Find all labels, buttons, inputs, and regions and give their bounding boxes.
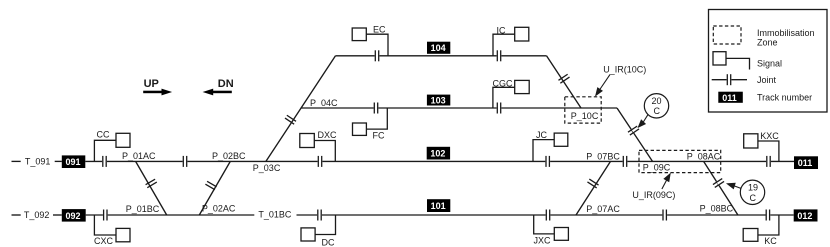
svg-text:FC: FC: [373, 131, 385, 141]
joint on P_01 diagonal: [145, 179, 157, 189]
signal DXC: [300, 134, 336, 162]
joint on main line at DXC: [318, 156, 323, 167]
svg-text:EC: EC: [373, 25, 386, 35]
signal CGC: [493, 80, 529, 108]
signal JC: [533, 133, 568, 161]
track number box 011: [794, 156, 818, 169]
svg-text:P_01AC: P_01AC: [122, 151, 156, 161]
immobilisation zone P_09C: [639, 150, 721, 172]
signal KXC: [744, 134, 779, 162]
svg-text:C: C: [654, 106, 661, 116]
svg-text:012: 012: [797, 211, 812, 221]
svg-text:Joint: Joint: [757, 75, 777, 85]
joint on P_07 diagonal: [587, 179, 599, 189]
signal CXC: [94, 215, 130, 242]
wire P_02 crossover diagonal: [199, 161, 230, 215]
joint on bottom line at KC: [766, 210, 771, 221]
svg-text:P_09C: P_09C: [643, 163, 671, 173]
joint on track103-main diagonal: [628, 126, 640, 136]
svg-text:U_IR(10C): U_IR(10C): [603, 65, 646, 75]
joint on main line at CC: [102, 156, 107, 167]
immobilisation zone P_10C: [565, 97, 601, 123]
track 104: [336, 55, 547, 57]
svg-text:20: 20: [652, 96, 662, 106]
joint on P_08 diagonal: [713, 178, 725, 188]
svg-text:T_092: T_092: [24, 210, 50, 220]
wire P_07 diagonal bottom to main line: [576, 161, 611, 215]
svg-text:IC: IC: [497, 26, 507, 36]
circle 20 C with arrow: [639, 115, 649, 127]
svg-text:P_10C: P_10C: [571, 111, 599, 121]
svg-text:JC: JC: [536, 130, 548, 140]
svg-text:T_091: T_091: [25, 156, 51, 166]
svg-text:KXC: KXC: [760, 131, 779, 141]
svg-text:UP: UP: [144, 78, 159, 90]
track number box 092: [62, 209, 86, 222]
svg-text:KC: KC: [764, 236, 777, 246]
signal DC: [301, 215, 336, 241]
svg-text:DXC: DXC: [318, 130, 338, 140]
joint on P_02 diagonal: [205, 181, 217, 191]
wire P_08 diagonal main to bottom line: [704, 161, 738, 215]
joint on bottom line at CXC: [103, 210, 108, 221]
signal FC: [353, 108, 388, 135]
track number box 104: [427, 42, 450, 54]
legend immobilisation zone symbol: [713, 26, 741, 44]
joint on track 104 at EC: [375, 50, 380, 61]
signal JXC: [534, 215, 569, 240]
joint on main line at JC: [545, 156, 550, 167]
joint on bottom line P_07AC: [662, 210, 667, 221]
track number box 103: [427, 95, 450, 106]
track number box 102: [427, 147, 450, 160]
joint on P_03C diagonal: [285, 115, 297, 125]
svg-text:U_IR(09C): U_IR(09C): [632, 190, 675, 200]
svg-text:T_01BC: T_01BC: [258, 210, 292, 220]
signal CC: [94, 133, 130, 161]
track T_092 / 092 / 101 / 012 bottom line: [12, 214, 21, 216]
wire P_03C / P_04C diagonal: [266, 56, 336, 162]
track 103: [301, 107, 617, 109]
svg-text:P_04C: P_04C: [310, 98, 338, 108]
circle 19 C with arrow: [728, 183, 741, 188]
svg-text:091: 091: [66, 157, 81, 167]
joint on P_10C diagonal: [558, 74, 570, 84]
svg-text:DC: DC: [322, 238, 335, 247]
svg-text:103: 103: [431, 96, 446, 106]
wire P_01 crossover diagonal: [136, 161, 167, 215]
legend track number symbol: [718, 92, 743, 103]
svg-text:P_08AC: P_08AC: [687, 152, 721, 162]
svg-text:102: 102: [430, 149, 445, 159]
joint on main line P_01AC/P_02BC: [183, 156, 188, 167]
svg-text:Signal: Signal: [757, 59, 782, 69]
wire P_10C diagonal track104 to track103: [547, 56, 582, 108]
svg-text:DN: DN: [218, 78, 234, 90]
svg-text:P_07AC: P_07AC: [586, 204, 620, 214]
track number box 101: [427, 199, 450, 212]
svg-text:Immobilisation: Immobilisation: [757, 28, 815, 38]
svg-text:P_03C: P_03C: [253, 163, 281, 173]
joint on main line P_07BC: [623, 156, 628, 167]
svg-text:011: 011: [798, 158, 813, 168]
wire diagonal track103 to main line: [617, 108, 653, 161]
signal IC: [493, 27, 529, 56]
svg-text:JXC: JXC: [534, 236, 552, 246]
svg-text:101: 101: [431, 201, 446, 211]
track T_091 / 091 / 102 / 011 main line: [12, 160, 21, 162]
svg-text:092: 092: [66, 211, 81, 221]
svg-text:P_08BC: P_08BC: [700, 204, 734, 214]
svg-text:CXC: CXC: [94, 236, 114, 246]
svg-text:P_07BC: P_07BC: [586, 152, 620, 162]
svg-text:P_01BC: P_01BC: [126, 204, 160, 214]
svg-text:P_02BC: P_02BC: [212, 151, 246, 161]
svg-text:Track number: Track number: [757, 92, 812, 102]
joint on bottom line at DC: [317, 210, 322, 221]
svg-text:P_02AC: P_02AC: [202, 203, 236, 213]
svg-text:011: 011: [722, 93, 737, 103]
joint on main line at KXC: [766, 156, 771, 167]
track number box 012: [794, 209, 818, 221]
legend signal symbol: [713, 52, 750, 70]
joint on track 104 at IC: [497, 50, 502, 61]
svg-text:19: 19: [748, 183, 758, 193]
joint on track 103 at CGC: [497, 103, 502, 114]
signal EC: [352, 28, 388, 56]
joint on bottom line at JXC: [546, 210, 551, 221]
legend joint symbol: [712, 79, 747, 81]
svg-text:CC: CC: [97, 130, 110, 140]
joint on track 103 at FC: [374, 103, 379, 114]
svg-text:C: C: [750, 193, 757, 203]
signal KC: [743, 215, 779, 241]
svg-text:CGC: CGC: [493, 78, 514, 88]
legend box: [709, 10, 828, 113]
track number box 091: [62, 155, 86, 168]
svg-text:104: 104: [431, 43, 446, 53]
svg-text:Zone: Zone: [757, 37, 778, 47]
